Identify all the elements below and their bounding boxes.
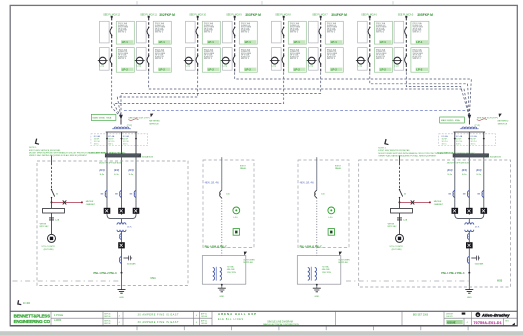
- panel label F1-LP2: [121, 68, 133, 72]
- schedule box F2-S1: [153, 21, 171, 44]
- svg-text:BENNETT&PLESS: BENNETT&PLESS: [14, 313, 51, 318]
- disconnect box F8-D2: [394, 48, 404, 71]
- title block top line: [10, 310, 517, 312]
- MSB ground symbol: [465, 290, 473, 294]
- svg-text:METERED: METERED: [149, 121, 160, 123]
- wire meter tap F8: [392, 60, 402, 62]
- MSB section 1 junction: [454, 138, 456, 140]
- svg-text:UTIL CO MTR: UTIL CO MTR: [390, 246, 404, 248]
- right service junction node: [399, 201, 401, 203]
- svg-text:PNL-1 PNL-2 PNL-3: PNL-1 PNL-2 PNL-3: [94, 272, 118, 275]
- left service fuse X: [63, 200, 67, 204]
- title block dividers: [50, 311, 52, 326]
- breaker F3-CB1: [197, 27, 199, 29]
- svg-text:4: 4: [196, 322, 197, 324]
- MSA breaker E3-2 wire: [121, 157, 123, 215]
- meter F6-M: [308, 57, 315, 64]
- breaker F6-CB1: [320, 27, 322, 29]
- left service tap end node: [81, 201, 83, 203]
- wire meter tap F2: [135, 60, 145, 62]
- svg-text:CUSTOMER: CUSTOMER: [338, 259, 350, 261]
- svg-text:3/4·C: 3/4·C: [108, 143, 114, 145]
- schedule box F7-S2: [374, 48, 392, 73]
- right service utility meter: [396, 234, 404, 242]
- schedule box F5-S1: [288, 21, 306, 44]
- schedule box F1-S2: [116, 48, 134, 73]
- svg-text:1-2A: 1-2A: [55, 219, 60, 222]
- MSB transformer secondary wire: [468, 231, 470, 242]
- schedule box F5-S2: [288, 48, 306, 73]
- wire meter tap F1: [98, 60, 108, 62]
- disconnect box F3-D2: [186, 48, 196, 71]
- node F4: [234, 16, 236, 18]
- svg-text:LP-1: LP-1: [294, 40, 301, 44]
- breaker F7-CB1: [369, 27, 371, 29]
- MSB CT metering cluster: [462, 127, 477, 129]
- svg-text:SEE NT 4: SEE NT 4: [376, 58, 384, 60]
- bus duct routing: feeder F4 run to right riser: [235, 72, 472, 117]
- middle branch B transformer cabinet: [297, 256, 341, 285]
- Allen-Bradley logo medallion: [476, 312, 481, 317]
- svg-text:JUN 06: JUN 06: [201, 316, 207, 318]
- svg-text:LP-2: LP-2: [416, 68, 423, 72]
- panel label F2-LP1: [158, 40, 170, 44]
- svg-text:SEE NT 4: SEE NT 4: [241, 32, 249, 34]
- title block mid line: [51, 317, 517, 319]
- wire meter tap F3: [184, 60, 194, 62]
- left riser flag: [150, 114, 153, 118]
- svg-text:LP-2: LP-2: [122, 68, 129, 72]
- right service fuse X: [411, 200, 415, 204]
- meter F8-M: [394, 57, 401, 64]
- middle branch B wire dotted mid: [316, 198, 318, 256]
- left service junction node: [51, 201, 53, 203]
- MSA transformer secondary wire: [121, 231, 123, 242]
- svg-text:LP-2: LP-2: [208, 68, 215, 72]
- MSB breaker E3-2 symbol: [467, 190, 469, 197]
- breaker F2-CB2: [148, 55, 150, 57]
- MSB equipment enclosure dashed: [359, 160, 511, 287]
- svg-text:480V, 3Ø, 4W: 480V, 3Ø, 4W: [300, 183, 315, 185]
- svg-text:(TYP): (TYP): [475, 125, 481, 127]
- svg-text:BID SET 2006: BID SET 2006: [413, 313, 429, 316]
- svg-text:3/4·C: 3/4·C: [94, 143, 100, 145]
- svg-text:PANEL: PANEL: [240, 167, 247, 170]
- svg-text:120V 3PH: 120V 3PH: [227, 272, 237, 274]
- left service CT tap wire (red): [52, 201, 82, 203]
- svg-text:70759A-E01-D1: 70759A-E01-D1: [474, 321, 502, 325]
- middle branch A transformer cabinet: [202, 256, 246, 285]
- breaker F5-CB1: [283, 27, 285, 29]
- MSA ground wire: [121, 273, 123, 290]
- disconnect box F2-D2: [137, 48, 147, 71]
- right service tap end node: [429, 201, 431, 203]
- svg-text:GND: GND: [219, 296, 224, 298]
- disconnect box F7-D2: [358, 48, 368, 71]
- middle branch B cabinet flag: [339, 252, 342, 256]
- disconnect box F5-D2: [272, 48, 282, 71]
- svg-text:480V, 3Ø, 4W: 480V, 3Ø, 4W: [205, 183, 220, 185]
- svg-text:600kVAR: 600kVAR: [475, 263, 484, 266]
- MSB drawout breaker block 3: [481, 208, 488, 214]
- meter F4-M: [222, 57, 229, 64]
- fold tick marks below: [136, 327, 138, 331]
- node F3: [197, 16, 199, 18]
- svg-text:L-21: L-21: [272, 66, 277, 68]
- MSB transformer T1: [465, 223, 474, 232]
- MSB section 3 junction: [483, 138, 485, 140]
- breaker F6-CB2: [320, 55, 322, 57]
- node F5: [283, 16, 285, 18]
- svg-text:SEE NT 4: SEE NT 4: [413, 58, 421, 60]
- breaker F2-CB1: [148, 27, 150, 29]
- middle branch B transformer coils: [308, 267, 310, 280]
- panel label F7-LP2: [379, 68, 391, 72]
- svg-text:PANEL: PANEL: [335, 167, 342, 170]
- wire meter tap F5: [270, 60, 280, 62]
- right service wire below CT: [399, 213, 401, 234]
- left service wire below CT: [51, 213, 53, 234]
- MSB feeder breaker lower: [468, 248, 470, 272]
- svg-text:METERED: METERED: [498, 121, 509, 123]
- wire F2 vertical dashed: [148, 18, 150, 73]
- svg-text:L-21: L-21: [394, 66, 399, 68]
- svg-text:CUSTOMER: CUSTOMER: [243, 259, 255, 261]
- meter F3-M: [185, 57, 192, 64]
- svg-text:LP-1: LP-1: [416, 40, 423, 44]
- svg-text:3/4·C: 3/4·C: [471, 143, 477, 145]
- panel label F4-LP1: [244, 40, 256, 44]
- paper shadow band bottom: [0, 331, 523, 335]
- MSA junction: [121, 272, 123, 274]
- MSB breaker E3-1 wire: [454, 157, 456, 215]
- MSB breaker E3-3 symbol: [482, 190, 484, 197]
- MSA breaker E3-2 symbol: [120, 190, 122, 197]
- svg-text:45 K: 45 K: [475, 227, 480, 229]
- bus duct routing: feeder F1 run to left riser: [112, 72, 121, 117]
- svg-text:SINGLE LINE DIAGRAM: SINGLE LINE DIAGRAM: [267, 321, 293, 324]
- svg-text:L-21: L-21: [100, 66, 105, 68]
- breaker F3-CB2: [197, 55, 199, 57]
- MSB drawout breaker block 1: [452, 208, 459, 214]
- svg-text:3/4·C: 3/4·C: [442, 143, 448, 145]
- svg-text:305FKP M: 305FKP M: [417, 13, 433, 17]
- middle branch A meter circle: [233, 207, 240, 214]
- MSA section 3 junction: [135, 138, 137, 140]
- right service wire to junction: [399, 198, 401, 209]
- breaker F7-CB2: [369, 55, 371, 57]
- right service capacitor bars: [397, 218, 402, 220]
- tie line between risers: [124, 110, 466, 112]
- middle branch B ground symbol: [313, 288, 321, 292]
- middle branch A wire to ground: [221, 284, 223, 288]
- svg-text:SEE NT 4: SEE NT 4: [327, 58, 335, 60]
- svg-text:L-21: L-21: [223, 66, 228, 68]
- bus duct routing: feeder F8 run to right riser: [406, 72, 469, 117]
- svg-text:L-21: L-21: [186, 66, 191, 68]
- node F2: [148, 16, 150, 18]
- MSB breaker E3-2 wire: [468, 157, 470, 215]
- svg-text:SEE NT 4: SEE NT 4: [155, 32, 163, 34]
- svg-text:SEE NT 4: SEE NT 4: [413, 32, 421, 34]
- middle branch A feeder wire: [221, 157, 223, 190]
- svg-text:UTIL CO MTR: UTIL CO MTR: [42, 246, 56, 248]
- wire F4 vertical dashed: [234, 18, 236, 73]
- svg-text:SEP 06: SEP 06: [104, 316, 110, 318]
- svg-text:EXIST 480V SERVICE FROM PAD: EXIST 480V SERVICE FROM PAD: [29, 149, 61, 152]
- svg-text:LP-2: LP-2: [294, 68, 301, 72]
- middle branch A dashed boundary box: [203, 160, 254, 248]
- svg-text:LP-1: LP-1: [331, 40, 338, 44]
- svg-text:45 K: 45 K: [127, 227, 132, 229]
- right service current transformer box: [391, 208, 413, 213]
- svg-text:METER: METER: [434, 201, 442, 203]
- MSB meter block: [466, 242, 473, 248]
- svg-text:SEE NT 4: SEE NT 4: [118, 58, 126, 60]
- svg-text:APP 21: APP 21: [201, 313, 207, 316]
- svg-text:MSB: MSB: [497, 280, 503, 283]
- svg-text:SEE NT 4: SEE NT 4: [204, 58, 212, 60]
- middle branch B dashed boundary box: [298, 160, 349, 248]
- svg-text:MTR SEC: MTR SEC: [40, 226, 50, 228]
- left service fused switch: [51, 189, 52, 190]
- schedule box F4-S2: [239, 48, 257, 73]
- schedule box F7-S1: [374, 21, 392, 44]
- MSA CT secondary line: [106, 131, 138, 133]
- MSA drawout breaker block 2: [118, 208, 125, 214]
- disconnect box F1-D2: [100, 48, 110, 71]
- svg-text:SUPPLIED: SUPPLIED: [243, 262, 253, 264]
- MSB section 2 drop wire: [468, 132, 470, 154]
- svg-text:30 AMPERE FINE IS EAST: 30 AMPERE FINE IS EAST: [138, 321, 179, 324]
- meter F1-M: [99, 57, 106, 64]
- panel label F8-LP1: [416, 40, 428, 44]
- left service utility meter: [48, 234, 56, 242]
- left service wire to junction: [51, 198, 53, 209]
- right riser stem: [468, 119, 470, 124]
- svg-text:SEE NT 4: SEE NT 4: [241, 58, 249, 60]
- panel label F7-LP1: [379, 40, 391, 44]
- middle branch A wire dotted mid: [221, 198, 223, 256]
- MSA section 1 junction: [106, 138, 108, 140]
- svg-text:CABINET: CABINET: [86, 203, 96, 206]
- small black chip: [462, 313, 466, 315]
- svg-text:CHK BY: CHK BY: [446, 316, 453, 318]
- svg-text:(E3): (E3): [114, 168, 119, 172]
- left riser stem: [120, 119, 122, 124]
- right riser arrowhead: [468, 115, 472, 120]
- svg-text:JUN 06: JUN 06: [201, 323, 207, 325]
- bus duct routing: feeder F5 run to left riser: [114, 72, 284, 117]
- wire F8 vertical dashed: [405, 18, 407, 73]
- svg-text:L-21: L-21: [137, 66, 142, 68]
- svg-text:LP-2: LP-2: [245, 68, 252, 72]
- svg-text:L4000: L4000: [54, 318, 62, 322]
- svg-text:MAIN SWBD ·MSA·: MAIN SWBD ·MSA·: [93, 117, 113, 120]
- svg-text:1 POLE: 1 POLE: [54, 313, 63, 317]
- svg-text:Allen-Bradley: Allen-Bradley: [481, 313, 510, 318]
- right switchboard name box: [440, 117, 465, 123]
- MSB CT secondary line: [454, 131, 486, 133]
- panel label F4-LP2: [244, 68, 256, 72]
- wire meter tap F4: [221, 60, 231, 62]
- middle branch B wire to ground: [316, 284, 318, 288]
- schedule box F3-S1: [202, 21, 220, 44]
- left service capacitor bars: [49, 218, 54, 220]
- wire F7 vertical dashed: [369, 18, 371, 73]
- left match line dash-dot: [13, 280, 122, 282]
- left switchboard name box: [91, 114, 116, 120]
- disconnect box F3-D1: [186, 21, 196, 43]
- svg-text:L-21: L-21: [358, 66, 363, 68]
- svg-text:L-21: L-21: [309, 66, 314, 68]
- svg-text:METER: METER: [86, 201, 94, 203]
- right match line dash-dot: [346, 280, 469, 282]
- panel label F5-LP1: [293, 40, 305, 44]
- svg-text:480/277V 3PH 4W BUS: 480/277V 3PH 4W BUS: [99, 162, 122, 164]
- svg-text:SEE NT 4: SEE NT 4: [118, 32, 126, 34]
- svg-text:304FKP M: 304FKP M: [331, 13, 347, 17]
- MSA section 1 drop wire: [106, 132, 108, 154]
- svg-text:3/4·C: 3/4·C: [456, 143, 462, 145]
- svg-text:302FKP M: 302FKP M: [159, 13, 175, 17]
- MSB drawout breaker block 2: [466, 208, 473, 214]
- schedule box F4-S1: [239, 21, 257, 44]
- svg-text:MAIN SWBD ·MSA·: MAIN SWBD ·MSA·: [441, 119, 461, 122]
- MSA section 2 drop wire: [121, 132, 123, 154]
- svg-text:MOUNT XFMR SUPPLIED WITH BRANC: MOUNT XFMR SUPPLIED WITH BRANCH CIRCUIT …: [378, 152, 475, 155]
- svg-text:(FUTURE): (FUTURE): [392, 249, 402, 251]
- panel label F6-LP1: [330, 40, 342, 44]
- node F6: [320, 16, 322, 18]
- bus duct routing: feeder F2 run to right riser: [149, 72, 470, 117]
- svg-text:GND: GND: [314, 296, 319, 298]
- disconnect box F7-D1: [358, 21, 368, 43]
- svg-text:CABINET: CABINET: [434, 203, 444, 206]
- svg-text:SUPPLIED: SUPPLIED: [338, 262, 348, 264]
- MSB section tie curves: [455, 215, 484, 219]
- svg-text:480/277V 3PH 4W BUS: 480/277V 3PH 4W BUS: [447, 162, 470, 164]
- svg-text:SEE NT 4: SEE NT 4: [290, 58, 298, 60]
- middle branch A breaker symbol: [220, 190, 222, 198]
- svg-text:3/4·C: 3/4·C: [123, 143, 129, 145]
- fold tick marks above: [136, 1, 138, 5]
- svg-text:ENGINEERING CO: ENGINEERING CO: [14, 319, 51, 324]
- MSB main bus bar: [453, 154, 489, 157]
- svg-text:SEE FDR SCH (TYP): SEE FDR SCH (TYP): [477, 118, 498, 120]
- svg-text:MTR SEC: MTR SEC: [388, 226, 398, 228]
- disconnect box F1-D1: [100, 21, 110, 43]
- panel label F3-LP2: [207, 68, 219, 72]
- svg-text:(E3): (E3): [128, 168, 133, 172]
- svg-text:GND: GND: [467, 297, 472, 299]
- MSA breaker E3-1 wire: [106, 157, 108, 215]
- MSB section 3 drop wire: [483, 132, 485, 154]
- schedule box F2-S2: [153, 48, 171, 73]
- MSA ground symbol: [118, 290, 126, 294]
- svg-text:PNL-1 PNL-2 PNL-3: PNL-1 PNL-2 PNL-3: [441, 272, 465, 275]
- disconnect box F6-D1: [309, 21, 319, 43]
- svg-text:40 400: 40 400: [23, 303, 31, 305]
- svg-text:ISSUE: ISSUE: [447, 320, 456, 324]
- svg-text:(FUTURE): (FUTURE): [44, 249, 54, 251]
- disconnect box F4-D1: [223, 21, 233, 43]
- svg-text:4: 4: [196, 315, 197, 317]
- right service service wire top: [399, 156, 401, 164]
- left service current transformer box: [43, 208, 65, 213]
- MSA feeder schedule dashed box: [91, 134, 148, 146]
- svg-text:WHITE: WHITE: [388, 223, 395, 225]
- bus duct routing: feeder F6 run to left riser: [121, 72, 321, 117]
- MSB junction: [468, 272, 470, 274]
- svg-text:(E3): (E3): [447, 168, 452, 172]
- svg-text:600kVAR: 600kVAR: [127, 263, 136, 266]
- middle branch B feeder wire: [316, 157, 318, 190]
- svg-text:PNL-A PNL-B PNL-C: PNL-A PNL-B PNL-C: [205, 245, 228, 248]
- issue stamp: [446, 320, 462, 324]
- svg-text:(TYP): (TYP): [127, 125, 133, 127]
- MSA section tie curves: [107, 215, 136, 219]
- svg-text:SEE NT 4: SEE NT 4: [327, 32, 335, 34]
- middle branch A ground symbol: [218, 288, 226, 292]
- svg-text:LP-1: LP-1: [380, 40, 387, 44]
- meter F2-M: [136, 57, 143, 64]
- wire F3 vertical dashed: [197, 18, 199, 73]
- panel label F1-LP1: [121, 40, 133, 44]
- svg-text:LP-2: LP-2: [331, 68, 338, 72]
- svg-text:APP 21: APP 21: [201, 319, 207, 322]
- svg-text:MSA: MSA: [151, 277, 157, 280]
- svg-text:SEE NT 4: SEE NT 4: [376, 32, 384, 34]
- MSA equipment enclosure dashed: [37, 161, 188, 286]
- schedule box F8-S2: [411, 48, 429, 73]
- svg-text:75 KVA: 75 KVA: [322, 265, 329, 268]
- MSA main bus bar: [105, 154, 141, 157]
- schedule box F6-S2: [325, 48, 343, 73]
- disconnect box F6-D2: [309, 48, 319, 71]
- svg-text:WHITE: WHITE: [40, 223, 47, 225]
- disconnect box F8-D1: [394, 21, 404, 43]
- svg-text:EXIST 480V SERVICE FROM PAD: EXIST 480V SERVICE FROM PAD: [378, 149, 410, 152]
- MSB breaker E3-1 symbol: [453, 190, 455, 197]
- MSB breaker CB-M symbol: [467, 233, 469, 240]
- MSA breaker E3-3 symbol: [134, 190, 136, 197]
- sheet note flag bottom-left: [17, 300, 22, 305]
- svg-text:MOUNT XFMR SUPPLIED WITH BRANC: MOUNT XFMR SUPPLIED WITH BRANCH CIRCUIT …: [29, 151, 126, 154]
- svg-text:LP-1: LP-1: [159, 40, 166, 44]
- svg-text:SEE NT 4: SEE NT 4: [290, 32, 298, 34]
- breaker F4-CB1: [234, 27, 236, 29]
- svg-text:SEE FDR SCH (TYP): SEE FDR SCH (TYP): [128, 118, 149, 120]
- schedule box F1-S1: [116, 21, 134, 44]
- right note flag: [384, 139, 389, 145]
- svg-text:VERIFY KAIC RATING REQUIRED FO: VERIFY KAIC RATING REQUIRED FOR ALL NEW …: [29, 154, 88, 157]
- svg-text:VERIFY KAIC RATING REQUIRED FO: VERIFY KAIC RATING REQUIRED FOR ALL NEW …: [378, 154, 437, 157]
- svg-text:LP-1: LP-1: [208, 40, 215, 44]
- svg-text:GND: GND: [119, 297, 124, 299]
- middle branch B breaker symbol: [315, 190, 317, 198]
- disconnect box F2-D1: [137, 21, 147, 43]
- MSA CT metering cluster: [114, 127, 129, 129]
- breaker F4-CB2: [234, 55, 236, 57]
- meter F7-M: [357, 57, 364, 64]
- svg-text:3000A BUS: 3000A BUS: [142, 156, 154, 159]
- svg-text:3000A BUS: 3000A BUS: [490, 156, 502, 159]
- MSB ground wire: [468, 273, 470, 290]
- MSA surge capacitor: [124, 256, 133, 261]
- svg-text:SERVICE: SERVICE: [498, 123, 508, 125]
- bus duct routing: feeder F3 run to left riser: [117, 72, 197, 117]
